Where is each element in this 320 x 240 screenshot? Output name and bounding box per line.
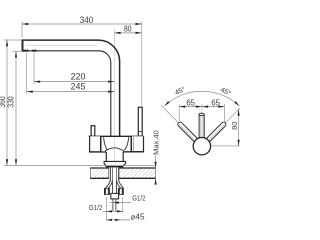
spout centerline horizontal (26, 44, 97, 46)
dim 220 extension line (33, 53, 35, 85)
svg-text:330: 330 (7, 96, 16, 108)
spout outer contour (22, 40, 120, 136)
counter reference surface line (4, 165, 156, 167)
svg-text:80: 80 (124, 24, 132, 34)
dim 330 top extension line (13, 50, 25, 52)
dim 340 extension line right (handle tip, shared with dim 80) (141, 22, 143, 106)
countertop left block (90, 168, 108, 179)
dim 340 extension line left (spout tip) (21, 22, 23, 38)
svg-text:245: 245 (71, 82, 86, 92)
body right divider (130, 136, 132, 151)
countertop right block (119, 168, 156, 179)
svg-text:65: 65 (211, 98, 220, 107)
dia45 arrow right (115, 219, 120, 221)
dim 80 arrow left (114, 32, 120, 34)
shank right side (118, 167, 120, 181)
svg-text:G1/2: G1/2 (132, 194, 145, 203)
spout inner contour (23, 51, 111, 136)
dim 65 arrow left (179, 106, 185, 108)
body bottom edge left (90, 151, 106, 153)
dim 360 line (6, 40, 8, 166)
dim 220 arrow left (34, 81, 40, 83)
left hose connector bands (105, 188, 106, 194)
45deg arc arrow left (164, 101, 169, 106)
dim 65-65 line (179, 106, 224, 108)
dim 65-65 extension left (178, 104, 180, 121)
G1/2 left dim arrow left (107, 210, 112, 212)
body left divider (100, 136, 102, 152)
body right inner line (132, 137, 134, 152)
dim 65 center arrows (196, 106, 202, 108)
dim 80 right line (238, 108, 240, 145)
left hose curves (106, 181, 113, 189)
dim 245 arrow right (108, 91, 114, 93)
dim 340 arrow left (22, 23, 28, 25)
svg-text:220: 220 (71, 72, 86, 82)
svg-text:80: 80 (230, 122, 239, 130)
body left block (90, 136, 101, 152)
mounting nut (111, 193, 119, 199)
extension line flange right (121, 197, 123, 213)
hose line inner-left in shank (111, 167, 113, 181)
body right block (131, 136, 143, 151)
dim 80 (top) centerline extension (113, 30, 115, 45)
dim 80 line (114, 32, 141, 34)
base flange bottom edge (106, 166, 123, 168)
dia45 dim line (106, 219, 130, 221)
G1/2 right leader arrow (113, 202, 119, 204)
dim 330 arrow bottom (15, 159, 17, 165)
dim 65 arrow right (218, 106, 224, 108)
G1/2 right leader (110, 202, 132, 204)
45deg arc dimension (164, 91, 239, 106)
dim 360 arrow top (6, 40, 8, 46)
spout stub top view (199, 114, 204, 138)
dim 80 right arrow top (238, 110, 240, 116)
dim 65-65 extension right (224, 104, 226, 121)
countertop left block top/bottom edges (90, 168, 108, 178)
spout tip cap (22, 40, 24, 51)
left lever (91, 126, 95, 137)
dim 220 line (34, 81, 114, 83)
G1/2 left dim arrow right (117, 210, 122, 212)
dim 65-65 center tick (201, 104, 203, 109)
Max.40 dim line (155, 155, 157, 184)
extension line flange left (105, 197, 107, 221)
left radial extension line (161, 105, 178, 122)
svg-text:340: 340 (80, 15, 93, 25)
lower column (106, 152, 123, 162)
svg-text:⌀45: ⌀45 (131, 213, 146, 222)
dim 340 line (22, 23, 142, 25)
svg-text:Max.40: Max.40 (151, 130, 160, 155)
dim 245 arrow left (27, 91, 33, 93)
dim 80 bottom extension line (212, 145, 240, 147)
right lever joint line (138, 130, 142, 132)
dim 220 arrow right (108, 81, 114, 83)
body centerline vertical (201, 104, 203, 150)
body arch over column (105, 148, 124, 151)
dim 245 extension line (26, 53, 28, 95)
G1/2 left dim line (103, 210, 124, 212)
45deg arc arrow right (234, 101, 239, 106)
dim 80 right arrow bottom (238, 140, 240, 146)
svg-text:G1/2: G1/2 (89, 203, 103, 212)
dim 330 line (15, 51, 17, 165)
left hose connector (104, 188, 109, 194)
dim 360 arrow bottom (6, 159, 8, 165)
center stud upper (112, 181, 116, 193)
base flange (104, 161, 126, 166)
dim 330 arrow top (15, 51, 17, 57)
spout aerator mark 1 (22, 50, 28, 52)
dim 80 arrow right (136, 32, 142, 34)
right hose curves (117, 181, 124, 189)
hose line inner-right in shank (116, 167, 118, 181)
dia45 arrow left (107, 219, 112, 221)
spout stub cap ellipse (199, 113, 204, 115)
Max.40 arrow bottom (tip at counter bottom) (155, 178, 157, 184)
spout centerline vertical (113, 44, 115, 162)
right lever (138, 107, 142, 136)
dim 360 top extension line (4, 39, 23, 41)
countertop right block top/bottom edges (119, 168, 156, 178)
right handle (45deg) (206, 121, 227, 142)
body circle (193, 138, 210, 155)
dim 340 arrow right (136, 23, 142, 25)
Max.40 arrow top (tip at counter top) (155, 162, 157, 168)
left handle (45deg) (177, 121, 198, 142)
shank left side (109, 167, 111, 181)
right hose connector bands (118, 188, 119, 194)
svg-text:65: 65 (186, 98, 195, 107)
body top edge (89, 135, 144, 137)
spout aerator mark 2 (32, 50, 37, 52)
stud lower (113, 199, 116, 211)
body bottom edge right (123, 151, 143, 153)
spout stub inner lines (200, 116, 203, 138)
dim 245 line (27, 91, 115, 93)
right radial extension line (225, 108, 240, 123)
right hose connector (118, 188, 123, 194)
body right transition curve (124, 137, 129, 150)
body left transition curve (104, 137, 108, 150)
